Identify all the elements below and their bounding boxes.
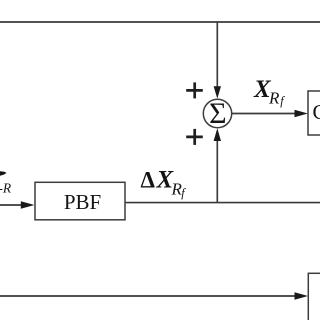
block PBF — [35, 182, 125, 220]
wire: vertical drop from top line to summer — [216, 22, 218, 88]
svg-text:Σ: Σ — [209, 97, 226, 130]
plus sign (upper input of summer) — [186, 82, 203, 98]
block C... (cut off at right edge) — [308, 91, 320, 135]
node label (cut) X_-R at left edge — [0, 171, 12, 196]
wire: PBF output line to right edge — [125, 202, 320, 204]
block (cut off at lower-right corner) — [308, 273, 320, 320]
svg-text:-R: -R — [0, 181, 12, 196]
wire: input arrow into PBF — [0, 204, 22, 206]
svg-text:C: C — [313, 100, 320, 124]
summer (sigma adder) — [203, 99, 231, 127]
svg-text:R: R — [268, 88, 280, 107]
node label delta-X_Rf (PBF output) — [141, 167, 187, 200]
arrowhead into summer (bottom) — [214, 128, 221, 141]
wire: bottom arrow into lower-right box — [0, 295, 295, 297]
arrowhead into summer (top) — [214, 86, 221, 98]
svg-text:Δ: Δ — [141, 168, 156, 193]
wire: summer output to right box — [232, 113, 296, 115]
arrowhead into right box — [295, 110, 308, 117]
node label X_Rf (summer output) — [253, 76, 285, 108]
plus sign (lower input of summer) — [186, 129, 203, 145]
wire: top horizontal feedback line — [0, 21, 320, 23]
wire: vertical rise from PBF output line to summer — [216, 140, 218, 203]
svg-text:PBF: PBF — [64, 190, 101, 214]
